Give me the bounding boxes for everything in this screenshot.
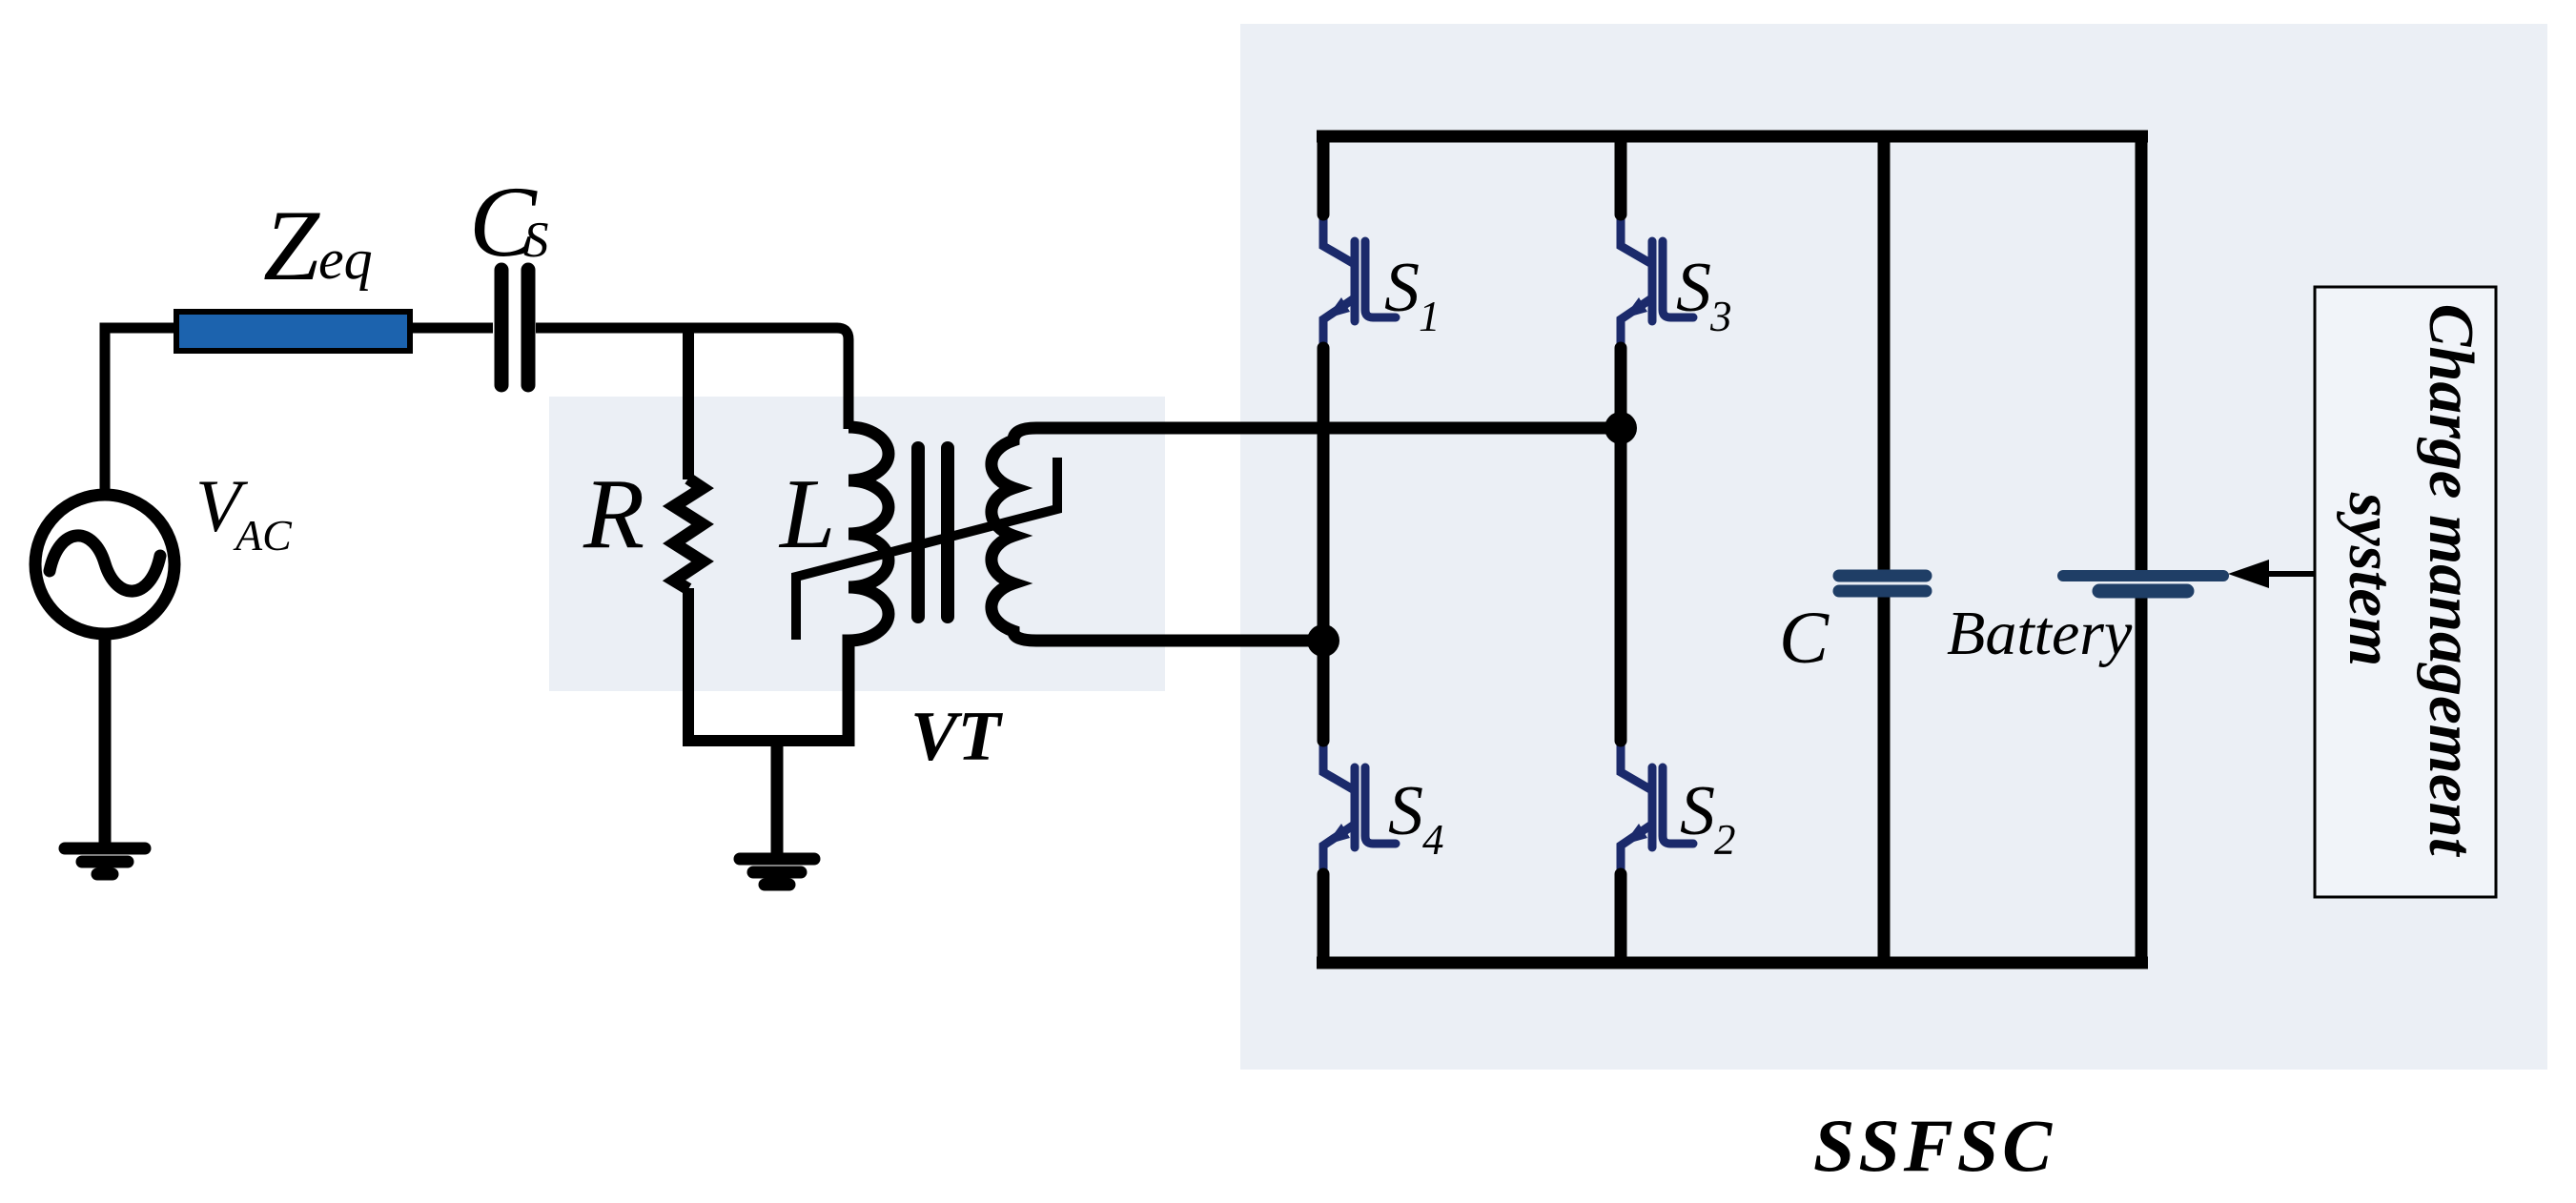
bridge left leg — [1318, 136, 1330, 963]
svg-text:S: S — [1676, 249, 1711, 327]
node: secondary top to middle leg — [1605, 412, 1637, 444]
switch S2 (IGBT) — [1621, 741, 1693, 875]
charge management system box — [2315, 287, 2496, 897]
wire resistor branch upper — [683, 323, 694, 479]
battery leg — [2136, 136, 2148, 963]
bridge bottom bus — [1317, 957, 2148, 969]
arrow from charge management box to battery — [2265, 571, 2315, 577]
battery plates — [2063, 576, 2223, 591]
svg-text:L: L — [778, 458, 835, 569]
svg-text:Battery: Battery — [1947, 599, 2133, 668]
svg-text:VT: VT — [910, 698, 1003, 776]
switch S4 (IGBT) — [1323, 741, 1396, 875]
impedance Zeq — [176, 312, 410, 351]
wire VAC bottom to ground — [99, 632, 112, 844]
wire CS to inductor branch — [536, 328, 848, 429]
capacitor C plates — [1839, 576, 1926, 591]
node: secondary bottom to left leg — [1307, 624, 1339, 657]
wire Zeq to CS — [410, 323, 493, 334]
wire resistor branch lower — [683, 588, 694, 746]
svg-text:AC: AC — [233, 511, 293, 560]
wire bottom of RL tank — [683, 735, 854, 746]
svg-text:C: C — [1779, 596, 1830, 679]
svg-text:S: S — [523, 213, 549, 268]
inductor L / transformer primary winding — [848, 427, 889, 746]
svg-text:Z: Z — [263, 190, 320, 301]
transformer core — [918, 448, 948, 617]
svg-text:2: 2 — [1714, 816, 1736, 864]
capacitor CS — [501, 270, 528, 385]
svg-text:1: 1 — [1419, 293, 1441, 340]
AC source VAC — [35, 495, 174, 634]
shaded region SSFSC — [1240, 24, 2547, 1070]
bridge middle leg — [1615, 136, 1627, 963]
wire VAC top to Zeq — [105, 328, 176, 492]
svg-text:S: S — [1388, 772, 1423, 850]
svg-text:4: 4 — [1422, 816, 1444, 864]
ground (VAC) — [65, 848, 145, 874]
svg-text:R: R — [583, 458, 644, 569]
variable coupling arrow of VT — [796, 458, 1057, 640]
resistor R — [674, 479, 703, 589]
wire tank to ground — [771, 741, 784, 854]
svg-text:S: S — [1384, 249, 1420, 327]
bridge top bus — [1317, 131, 2148, 143]
switch S1 (IGBT) — [1323, 214, 1396, 349]
svg-text:SSFSC: SSFSC — [1813, 1104, 2055, 1187]
svg-text:eq: eq — [318, 228, 373, 291]
ground (tank) — [740, 859, 814, 885]
transformer secondary winding and leads to bridge — [992, 428, 1621, 641]
svg-text:3: 3 — [1709, 293, 1732, 340]
svg-text:S: S — [1680, 772, 1715, 850]
shaded region around transformer VT — [549, 397, 1165, 691]
capacitor C leg — [1878, 136, 1891, 963]
switch S3 (IGBT) — [1621, 214, 1693, 349]
